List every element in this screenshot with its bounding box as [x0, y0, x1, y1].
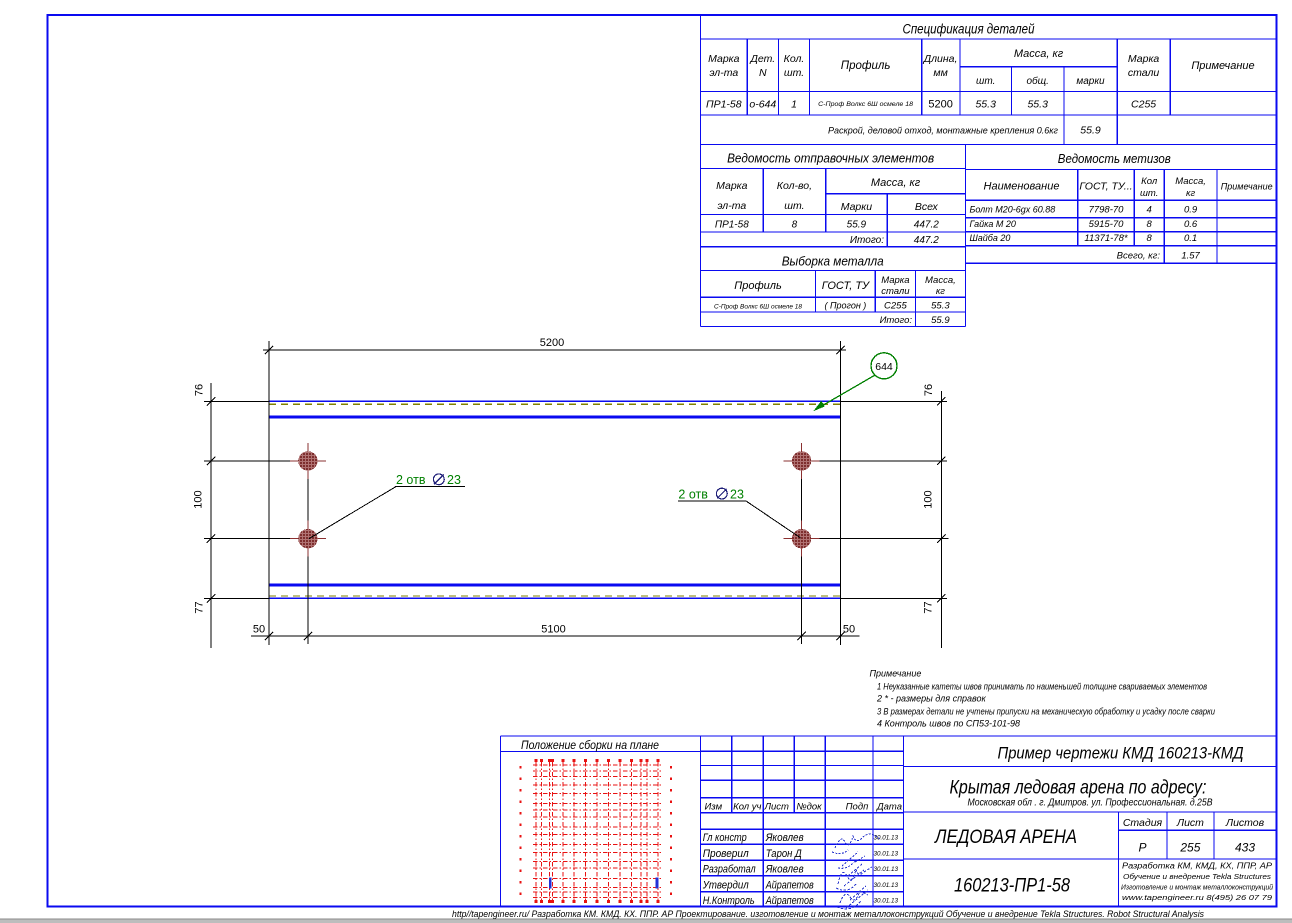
- svg-text:Наименование: Наименование: [984, 181, 1060, 193]
- svg-text:2 отв: 2 отв: [678, 487, 708, 501]
- svg-text:Ведомость отправочных элементо: Ведомость отправочных элементов: [727, 151, 934, 166]
- svg-text:Проверил: Проверил: [703, 848, 749, 860]
- svg-text:0.9: 0.9: [1184, 205, 1198, 216]
- svg-text:Примечание: Примечание: [1191, 60, 1254, 72]
- svg-text:Всех: Всех: [915, 201, 939, 213]
- svg-text:Разработал: Разработал: [703, 864, 756, 876]
- svg-text:Лист: Лист: [1176, 817, 1204, 829]
- svg-text:76: 76: [194, 384, 206, 396]
- svg-text:Гайка М 20: Гайка М 20: [970, 219, 1016, 229]
- svg-text:С255: С255: [884, 301, 907, 312]
- svg-text:Всего, кг:: Всего, кг:: [1117, 251, 1161, 262]
- svg-text:Марка: Марка: [1128, 53, 1160, 65]
- svg-text:ПР1-58: ПР1-58: [715, 220, 749, 231]
- svg-text:1.57: 1.57: [1181, 251, 1200, 262]
- svg-text:Листов: Листов: [1225, 817, 1265, 829]
- svg-text:Длина,: Длина,: [923, 53, 958, 65]
- svg-text:Дата: Дата: [876, 801, 902, 812]
- svg-text:30.01.13: 30.01.13: [873, 882, 898, 889]
- svg-text:эл-та: эл-та: [717, 200, 746, 212]
- svg-text:Изготовление и монтаж металлок: Изготовление и монтаж металлоконструкций: [1121, 883, 1273, 892]
- svg-text:1 Неуказанные катеты швов при: 1 Неуказанные катеты швов принимать по н…: [877, 682, 1207, 692]
- svg-text:Подп: Подп: [846, 801, 869, 812]
- svg-text:5200: 5200: [540, 337, 564, 349]
- svg-text:Лист: Лист: [763, 801, 789, 812]
- svg-text:ЛЕДОВАЯ АРЕНА: ЛЕДОВАЯ АРЕНА: [933, 827, 1077, 848]
- svg-text:шт.: шт.: [1140, 188, 1158, 199]
- svg-text:Спецификация деталей: Спецификация деталей: [903, 22, 1035, 37]
- svg-text:23: 23: [447, 473, 461, 487]
- svg-text:№док: №док: [796, 801, 822, 812]
- svg-text:Кол-во,: Кол-во,: [777, 180, 812, 192]
- svg-text:шт.: шт.: [784, 200, 804, 212]
- svg-text:Профиль: Профиль: [841, 60, 891, 72]
- svg-text:марки: марки: [1076, 76, 1105, 87]
- svg-text:Р: Р: [1138, 841, 1146, 855]
- svg-text:255: 255: [1179, 841, 1200, 855]
- svg-text:С-Проф Волкс 6Ш осмеле 18: С-Проф Волкс 6Ш осмеле 18: [714, 305, 803, 311]
- svg-text:Разработка КМ, КМД, КХ, ППР, А: Разработка КМ, КМД, КХ, ППР, АР: [1122, 862, 1273, 871]
- svg-text:30.01.13: 30.01.13: [873, 897, 898, 904]
- svg-text:3 В размерах детали не учтены: 3 В размерах детали не учтены припуски н…: [877, 707, 1215, 717]
- svg-text:Положение сборки на плане: Положение сборки на плане: [521, 738, 659, 752]
- svg-text:Марка: Марка: [716, 180, 748, 192]
- svg-text:Ведомость метизов: Ведомость метизов: [1058, 151, 1171, 166]
- svg-text:эл-та: эл-та: [709, 67, 738, 79]
- svg-text:С255: С255: [1131, 99, 1156, 111]
- svg-text:Шайба 20: Шайба 20: [970, 233, 1011, 243]
- svg-text:Примечание: Примечание: [870, 669, 922, 679]
- svg-text:стали: стали: [881, 286, 910, 297]
- svg-text:Пример чертежи КМД 160213-КМД: Пример чертежи КМД 160213-КМД: [998, 745, 1244, 763]
- svg-text:644: 644: [875, 361, 893, 373]
- svg-text:433: 433: [1235, 841, 1255, 855]
- svg-text:4 Контроль швов по СП53-101-9: 4 Контроль швов по СП53-101-98: [877, 719, 1020, 729]
- svg-text:30.01.13: 30.01.13: [873, 851, 898, 858]
- svg-text:шт.: шт.: [784, 67, 804, 79]
- svg-text:55.3: 55.3: [1027, 99, 1048, 111]
- svg-text:Стадия: Стадия: [1123, 817, 1163, 829]
- svg-text:Обучение и внедрение Tekla St: Обучение и внедрение Tekla Structures: [1123, 872, 1271, 881]
- svg-text:Утвердил: Утвердил: [702, 880, 749, 892]
- svg-text:160213-ПР1-58: 160213-ПР1-58: [954, 876, 1070, 897]
- svg-text:мм: мм: [933, 67, 947, 79]
- svg-text:N: N: [759, 67, 767, 79]
- svg-text:0.1: 0.1: [1184, 233, 1197, 244]
- svg-text:447.2: 447.2: [914, 220, 939, 231]
- svg-text:Выборка металла: Выборка металла: [782, 254, 884, 269]
- svg-text:Марка: Марка: [708, 53, 740, 65]
- svg-text:30.01.13: 30.01.13: [873, 866, 898, 873]
- svg-text:447.2: 447.2: [914, 235, 939, 246]
- svg-text:http//tapengineer.ru/ Разрабо: http//tapengineer.ru/ Разработка КМ. КМД…: [452, 909, 1204, 919]
- svg-text:55.9: 55.9: [931, 315, 950, 326]
- svg-text:77: 77: [923, 601, 935, 613]
- svg-text:50: 50: [843, 624, 855, 636]
- svg-text:5915-70: 5915-70: [1089, 219, 1125, 230]
- svg-text:55.9: 55.9: [1080, 125, 1101, 137]
- svg-text:Изм: Изм: [704, 801, 722, 812]
- svg-text:www.tapengineer.ru 8(49: www.tapengineer.ru 8(495) 26 07 79: [1122, 893, 1273, 902]
- svg-text:Кол уч: Кол уч: [733, 801, 761, 812]
- svg-text:Кол: Кол: [1141, 176, 1158, 187]
- svg-text:23: 23: [730, 487, 744, 501]
- svg-text:Московская обл . г. Дмитров. у: Московская обл . г. Дмитров. ул. Професс…: [968, 797, 1213, 809]
- svg-text:1: 1: [791, 99, 797, 111]
- svg-text:7798-70: 7798-70: [1089, 205, 1125, 216]
- svg-text:Яковлев: Яковлев: [765, 864, 804, 876]
- svg-text:55.3: 55.3: [931, 301, 950, 312]
- svg-text:8: 8: [792, 220, 798, 231]
- svg-text:Крытая ледовая арена по адресу: Крытая ледовая арена по адресу:: [950, 777, 1207, 799]
- svg-text:ГОСТ, ТУ...: ГОСТ, ТУ...: [1079, 181, 1132, 193]
- svg-text:30.01.13: 30.01.13: [873, 835, 898, 842]
- svg-text:11371-78*: 11371-78*: [1084, 233, 1127, 244]
- svg-text:4: 4: [1147, 205, 1152, 216]
- svg-text:55.3: 55.3: [975, 99, 996, 111]
- svg-text:Масса,: Масса,: [1175, 176, 1206, 187]
- svg-text:76: 76: [923, 384, 935, 396]
- svg-text:Итого:: Итого:: [880, 315, 913, 326]
- svg-text:Айрапетов: Айрапетов: [765, 880, 814, 892]
- svg-text:77: 77: [194, 601, 206, 613]
- svg-text:2 отв: 2 отв: [396, 473, 426, 487]
- svg-text:ГОСТ, ТУ: ГОСТ, ТУ: [822, 280, 870, 292]
- svg-text:0.6: 0.6: [1184, 219, 1198, 230]
- svg-text:Масса, кг: Масса, кг: [871, 177, 921, 189]
- svg-text:шт.: шт.: [976, 76, 995, 87]
- svg-text:Болт М20-6gх 60.88: Болт М20-6gх 60.88: [970, 205, 1056, 215]
- svg-text:55.9: 55.9: [847, 220, 867, 231]
- svg-text:общ.: общ.: [1026, 75, 1048, 87]
- svg-text:Итого:: Итого:: [850, 235, 884, 246]
- svg-text:Н.Контроль: Н.Контроль: [703, 895, 755, 907]
- svg-text:Дет.: Дет.: [749, 53, 775, 65]
- svg-text:ПР1-58: ПР1-58: [706, 99, 742, 111]
- svg-text:Гл констр: Гл констр: [703, 832, 747, 844]
- svg-text:Марки: Марки: [841, 201, 873, 213]
- svg-text:Примечание: Примечание: [1221, 182, 1273, 192]
- svg-text:Раскрой, деловой отход, монтаж: Раскрой, деловой отход, монтажные крепле…: [828, 126, 1059, 136]
- svg-text:Кол.: Кол.: [784, 53, 805, 65]
- svg-text:5100: 5100: [541, 624, 565, 636]
- svg-text:стали: стали: [1128, 67, 1160, 79]
- svg-text:100: 100: [193, 490, 205, 508]
- svg-text:Профиль: Профиль: [734, 280, 782, 292]
- svg-text:50: 50: [253, 624, 265, 636]
- svg-text:Масса, кг: Масса, кг: [1014, 48, 1064, 60]
- svg-text:2 * - размеры для справок: 2 * - размеры для справок: [876, 694, 987, 704]
- svg-text:кг: кг: [936, 286, 945, 297]
- svg-text:Тарон Д: Тарон Д: [766, 848, 802, 860]
- svg-text:5200: 5200: [928, 99, 952, 111]
- svg-text:Яковлев: Яковлев: [765, 832, 804, 844]
- svg-text:Айрапетов: Айрапетов: [765, 895, 814, 907]
- svg-text:Масса,: Масса,: [925, 275, 956, 286]
- svg-text:С-Проф Волкс 6Ш осмеле 18: С-Проф Волкс 6Ш осмеле 18: [818, 101, 914, 108]
- svg-text:кг: кг: [1186, 188, 1195, 199]
- svg-text:8: 8: [1147, 233, 1153, 244]
- svg-text:8: 8: [1147, 219, 1153, 230]
- svg-text:о-644: о-644: [749, 99, 776, 111]
- svg-text:100: 100: [923, 490, 935, 508]
- svg-text:( Прогон ): ( Прогон ): [824, 301, 866, 311]
- svg-text:Марка: Марка: [881, 275, 909, 286]
